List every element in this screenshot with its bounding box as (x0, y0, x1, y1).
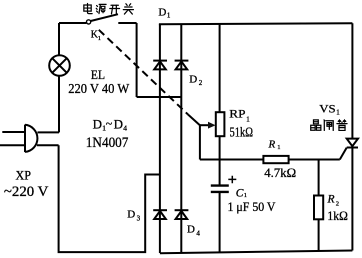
svg-text:1: 1 (98, 35, 101, 42)
svg-text:1: 1 (246, 115, 250, 123)
svg-text:D: D (114, 117, 123, 132)
svg-text:R: R (327, 194, 335, 206)
svg-text:2: 2 (336, 200, 339, 207)
svg-text:R: R (268, 139, 276, 151)
svg-text:1 μF 50 V: 1 μF 50 V (228, 199, 277, 214)
svg-text:4: 4 (123, 124, 127, 133)
svg-text:D: D (158, 6, 166, 18)
svg-text:D: D (93, 117, 102, 132)
svg-text:1N4007: 1N4007 (86, 134, 129, 151)
svg-text:1: 1 (277, 144, 280, 151)
svg-text:D: D (127, 209, 135, 221)
svg-text:51kΩ: 51kΩ (230, 125, 254, 140)
svg-text:D: D (187, 224, 195, 236)
svg-text:D: D (189, 74, 197, 86)
svg-text:C: C (236, 187, 244, 199)
svg-text:~: ~ (106, 116, 113, 130)
svg-text:2: 2 (199, 79, 203, 87)
svg-text:4: 4 (196, 230, 200, 238)
svg-text:XP: XP (16, 167, 32, 182)
svg-text:RP: RP (229, 107, 246, 121)
svg-text:3: 3 (137, 215, 141, 223)
svg-text:4.7kΩ: 4.7kΩ (264, 165, 296, 180)
svg-text:1: 1 (244, 192, 247, 199)
svg-text:~220 V: ~220 V (4, 184, 49, 200)
svg-text:1: 1 (336, 109, 340, 117)
svg-text:EL: EL (91, 67, 105, 82)
svg-text:1kΩ: 1kΩ (327, 208, 348, 223)
svg-text:VS: VS (319, 101, 335, 115)
svg-text:1: 1 (167, 12, 171, 20)
svg-text:220 V 40 W: 220 V 40 W (68, 82, 130, 97)
